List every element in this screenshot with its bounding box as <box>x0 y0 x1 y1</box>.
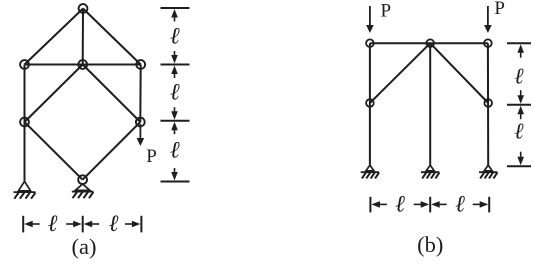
wire member C2-L3 diagonal (frame a) <box>25 65 83 123</box>
svg-text:ℓ: ℓ <box>170 80 180 106</box>
dimension arrow up seg3 (frame a) <box>171 122 178 131</box>
dimension arrow right span1 (frame b) <box>421 201 430 208</box>
dimension arrow up seg2 (frame a) <box>171 66 178 75</box>
dimension arrow down seg2 (frame b) <box>517 157 524 166</box>
svg-text:P: P <box>381 1 392 22</box>
wire right column vertical (frame b) <box>487 43 489 166</box>
wire top chord TL-TR (frame b) <box>370 42 488 44</box>
load arrow P right shaft (frame b) <box>487 6 489 26</box>
dimension arrow left span1 (frame a) <box>24 221 33 228</box>
dimension arrow up seg2 (frame b) <box>517 106 524 115</box>
wire member L3 to left support (frame a) <box>24 122 26 182</box>
load arrow P shaft (frame a) <box>139 124 141 139</box>
ground pin support centre (frame b) <box>426 165 434 171</box>
dimension arrow right span2 (frame b) <box>480 201 489 208</box>
node ML joint (frame b) <box>366 99 374 107</box>
dimension tick 2 horizontal dim (frame b) <box>429 197 431 213</box>
dimension arrow down seg3 (frame a) <box>171 172 178 181</box>
wire member L3-B diagonal (frame a) <box>25 122 83 180</box>
dimension arrow right span1 (frame a) <box>73 221 82 228</box>
load arrow P left head (frame b) <box>366 25 374 33</box>
node B bottom joint (frame a) <box>78 175 87 184</box>
dimension arrow down seg2 (frame a) <box>171 111 178 120</box>
wire diagonal TC-ML (frame b) <box>370 43 430 103</box>
ground pin support right (frame b) <box>484 165 492 171</box>
load arrow P head (frame a) <box>137 138 145 146</box>
ground pin support centre (frame a) <box>75 184 89 190</box>
dimension tick 3 horizontal dim (frame b) <box>488 197 490 213</box>
dimension tick 1 horizontal dim (frame b) <box>369 197 371 213</box>
svg-text:P: P <box>146 146 157 167</box>
wire diagonal TC-MR (frame b) <box>430 43 488 103</box>
dimension arrow left span2 (frame b) <box>431 201 440 208</box>
dimension tick 3 horizontal dim (frame a) <box>140 216 142 233</box>
node R3 joint (frame a) <box>136 118 145 127</box>
dimension bar 3 vertical dim (frame a) <box>161 120 190 122</box>
node TL joint (frame b) <box>366 39 374 47</box>
node TR joint (frame b) <box>484 39 492 47</box>
node R2 joint (frame a) <box>136 60 145 69</box>
dimension arrow left span1 (frame b) <box>371 201 380 208</box>
wire centre column vertical (frame b) <box>429 43 431 166</box>
wire left column vertical (frame b) <box>369 43 371 166</box>
dimension arrow down seg1 (frame a) <box>171 55 178 64</box>
wire member R3-B diagonal (frame a) <box>83 122 141 180</box>
dimension arrow right span2 (frame a) <box>132 221 141 228</box>
dimension tick 2 horizontal dim (frame a) <box>82 216 84 233</box>
dimension arrow left span2 (frame a) <box>84 221 93 228</box>
dimension arrow down seg1 (frame b) <box>517 95 524 104</box>
wire member T-R2 (frame a) <box>83 9 141 65</box>
dimension arrow up seg1 (frame b) <box>517 44 524 53</box>
ground pin support left (frame a) <box>19 181 31 191</box>
dimension bar 1 vertical dim (frame b) <box>507 42 531 44</box>
svg-text:ℓ: ℓ <box>395 191 405 217</box>
svg-text:ℓ: ℓ <box>514 64 524 89</box>
dimension tick 1 horizontal dim (frame a) <box>22 216 24 233</box>
dimension bar 2 vertical dim (frame a) <box>161 64 190 66</box>
dimension bar 3 vertical dim (frame b) <box>507 165 531 167</box>
svg-text:ℓ: ℓ <box>170 24 180 50</box>
wire member C2-R2 (frame a) <box>83 64 141 66</box>
node C2 joint (frame a) <box>78 60 87 69</box>
wire member T-C2 vertical (frame a) <box>82 9 84 65</box>
svg-text:(b): (b) <box>417 232 443 257</box>
svg-text:ℓ: ℓ <box>109 211 119 237</box>
svg-text:ℓ: ℓ <box>48 211 58 237</box>
svg-text:ℓ: ℓ <box>455 191 465 217</box>
wire member R2-R3 vertical (frame a) <box>139 65 141 123</box>
node L2 joint (frame a) <box>20 60 29 69</box>
dimension bar 1 vertical dim (frame a) <box>161 7 190 9</box>
ground pin support left (frame b) <box>366 165 374 171</box>
svg-text:(a): (a) <box>72 234 97 259</box>
load arrow P left shaft (frame b) <box>369 6 371 26</box>
node L3 joint (frame a) <box>20 118 29 127</box>
node T top joint (frame a) <box>79 4 88 13</box>
wire member L2-L3 vertical (frame a) <box>24 65 26 123</box>
svg-text:ℓ: ℓ <box>514 119 524 144</box>
dimension bar 2 vertical dim (frame b) <box>507 104 531 106</box>
node MR joint (frame b) <box>484 99 492 107</box>
dimension arrow up seg1 (frame a) <box>171 9 178 18</box>
wire member C2-R3 diagonal (frame a) <box>83 65 141 123</box>
svg-text:P: P <box>494 0 505 19</box>
svg-text:ℓ: ℓ <box>170 138 180 164</box>
load arrow P right head (frame b) <box>484 25 492 33</box>
wire member L2-C2 (frame a) <box>25 64 83 66</box>
wire member T-L2 (frame a) <box>25 9 84 65</box>
dimension bar 4 vertical dim (frame a) <box>161 181 190 183</box>
node TC joint (frame b) <box>426 39 434 47</box>
